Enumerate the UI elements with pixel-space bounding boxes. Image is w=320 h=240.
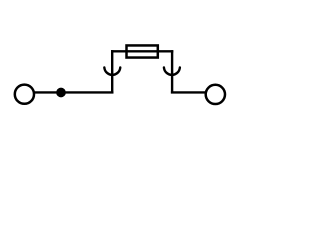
wire (left riser, fuse pin through contact): [111, 50, 113, 93]
wire (left terminal to junction): [34, 91, 61, 93]
contact (right disconnect contact arc): [164, 67, 180, 74]
wire (junction to left riser corner): [61, 91, 113, 93]
wire (right riser corner to right terminal): [171, 91, 206, 93]
contact (left disconnect contact arc): [104, 67, 120, 74]
terminal X2 (right terminal circle): [206, 85, 225, 104]
fuse F1: [127, 45, 158, 57]
junction dot: [56, 88, 66, 98]
wire (right riser, fuse pin through contact): [171, 50, 173, 93]
wire (top horizontal through fuse): [111, 50, 173, 52]
terminal X1 (left terminal circle): [15, 85, 34, 104]
